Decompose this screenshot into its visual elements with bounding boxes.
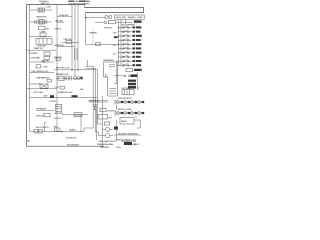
- thermal cutout box: [60, 86, 64, 89]
- wire ladder feed bus: [117, 20, 119, 66]
- svg-text:DEF HTR: DEF HTR: [41, 61, 50, 63]
- wire left drop D: [80, 115, 82, 132]
- wire aux row: [57, 46, 75, 48]
- svg-text:AUGER: AUGER: [75, 114, 82, 117]
- svg-text:MOLD HTR: MOLD HTR: [116, 17, 126, 19]
- wire defrost branch: [30, 72, 54, 74]
- wire vertical bus A: [71, 5, 73, 71]
- svg-text:CORD: CORD: [84, 4, 90, 6]
- dispenser strip 1 connector row: [115, 98, 144, 104]
- heater box lower right: [120, 118, 134, 124]
- label lamp pair 2: [128, 83, 136, 85]
- wire icemaker feed: [86, 17, 105, 19]
- note block emphasis dash 1: [69, 1, 74, 2]
- wire ground row: [57, 21, 64, 23]
- svg-text:SEE PG 2: SEE PG 2: [41, 3, 50, 5]
- svg-text:WIRING DIAGRAM: WIRING DIAGRAM: [97, 143, 113, 146]
- svg-text:MULLION HTR: MULLION HTR: [36, 127, 49, 129]
- label ladder left 2: [114, 36, 118, 38]
- wire junction row: [54, 69, 88, 71]
- evaporator fan box: [47, 79, 52, 82]
- label water tube dark: [114, 126, 118, 129]
- auger motor box: [74, 113, 82, 117]
- heater sensor box: [55, 128, 61, 131]
- label holding sw dark: [134, 20, 142, 22]
- thermostat box: [40, 84, 48, 88]
- dispenser strip 2 connector row: [115, 108, 144, 115]
- gear box: [108, 21, 115, 24]
- terminal header double line: [89, 100, 108, 103]
- connector P4 pins: [34, 129, 42, 133]
- label switch dark: [72, 95, 78, 97]
- wire motor feed: [95, 21, 104, 23]
- sensor box: [56, 58, 60, 60]
- svg-text:40W: 40W: [44, 96, 48, 98]
- defrost timer M1: [30, 20, 52, 24]
- junction dot A: [71, 69, 72, 70]
- lamp dark box: [128, 86, 140, 90]
- dispenser housing outline: [103, 60, 117, 96]
- wire L1 line bus vertical: [29, 5, 31, 132]
- wire right drop 2: [136, 72, 138, 90]
- wire top supply bus: [27, 4, 85, 6]
- svg-text:SEE CHART NOTE 3: SEE CHART NOTE 3: [99, 140, 117, 143]
- wire vertical bus B: [74, 5, 76, 78]
- svg-text:18 AWG: 18 AWG: [69, 129, 76, 132]
- svg-text:CRUSH SOL: CRUSH SOL: [66, 138, 78, 140]
- harness ladder left rail: [95, 106, 97, 140]
- svg-text:DEF THERMO L140: DEF THERMO L140: [32, 71, 50, 73]
- svg-text:TMR REL: TMR REL: [89, 33, 98, 35]
- svg-text:575W: 575W: [43, 66, 48, 68]
- door switch row 3: [118, 34, 141, 37]
- svg-text:165W: 165W: [138, 17, 143, 19]
- wire valve drop: [135, 116, 137, 118]
- border frame left edge: [26, 4, 28, 146]
- junction dot H2: [94, 109, 95, 110]
- wire twin drop A: [74, 48, 76, 60]
- wire to ladder: [116, 21, 132, 23]
- svg-text:HTR SW MTR LT: HTR SW MTR LT: [118, 98, 133, 100]
- harness box 1: [100, 108, 106, 112]
- svg-text:VALVE: VALVE: [121, 120, 127, 123]
- junction dot H1: [94, 106, 95, 107]
- wire fuse row: [57, 15, 72, 17]
- svg-text:RADIANT HTR: RADIANT HTR: [56, 73, 69, 76]
- wire compressor feed: [27, 49, 57, 51]
- svg-text:DISP BRD: DISP BRD: [122, 88, 131, 90]
- control board outline: [56, 104, 62, 111]
- heater element E1 chain: [56, 76, 83, 81]
- small box on ladder: [104, 122, 110, 125]
- wire right drop: [114, 60, 117, 84]
- door switch row 1: [118, 26, 141, 29]
- junction dot condenser: [43, 61, 44, 62]
- icemaker head circles P1: [105, 15, 112, 18]
- wire strip stub: [124, 19, 126, 24]
- svg-text:SW: SW: [113, 32, 116, 34]
- wire strip link: [116, 105, 118, 110]
- svg-text:FUSE LINK: FUSE LINK: [59, 15, 69, 17]
- wire drop W1: [84, 66, 93, 131]
- svg-text:DEF HTR LOOP: DEF HTR LOOP: [56, 68, 70, 70]
- compressor motor outline: [36, 38, 52, 44]
- wire board row: [62, 114, 88, 116]
- svg-text:T1 T2 T3 T4: T1 T2 T3 T4: [89, 101, 100, 103]
- tiny mark margin: [28, 140, 29, 141]
- wire return bus: [86, 12, 144, 14]
- junction dot neutral cross: [118, 44, 119, 45]
- svg-text:WTR VLV: WTR VLV: [36, 115, 45, 117]
- wire bus wrap at right margin: [143, 8, 145, 13]
- solenoid circle 2: [103, 134, 113, 138]
- svg-text:COLD CTRL: COLD CTRL: [30, 83, 41, 85]
- wire bottom bus: [30, 131, 84, 133]
- door switch row 7: [118, 51, 141, 54]
- door switch row 2: [118, 30, 140, 33]
- svg-text:TCO: TCO: [55, 87, 59, 89]
- door switch row 9: [118, 59, 141, 62]
- wire drop W2: [86, 68, 95, 132]
- note block emphasis dash 2: [79, 1, 85, 2]
- wire lower-right bus: [116, 120, 118, 140]
- wire ladder inner bus: [120, 19, 122, 66]
- wire light branch: [30, 97, 97, 99]
- defrost heater R row: [36, 65, 48, 69]
- svg-text:FRZ LIGHT: FRZ LIGHT: [34, 92, 44, 94]
- overload protector OL1: [40, 33, 46, 36]
- door switch row 5: [118, 43, 141, 46]
- svg-text:242193800: 242193800: [100, 147, 110, 149]
- svg-text:DR SW: DR SW: [50, 101, 56, 103]
- junction dot B: [77, 69, 78, 70]
- connector J1: [30, 7, 52, 12]
- door switch row 10: [118, 64, 141, 67]
- wire neutral drop: [85, 13, 87, 45]
- wire twin drop B: [76, 48, 78, 60]
- junction dot icemaker feed: [85, 17, 86, 18]
- wire link corner G: [95, 132, 102, 136]
- wire stub riser: [87, 60, 89, 66]
- wire thermostat to frame: [27, 88, 58, 90]
- svg-text:C1 15MFD: C1 15MFD: [29, 53, 38, 55]
- terminal text row 1: [114, 134, 141, 136]
- wire icemaker underline: [36, 109, 54, 111]
- door switch row 8: [118, 55, 140, 58]
- lamp cluster box: [126, 68, 142, 71]
- door switch row 4: [118, 38, 140, 41]
- limit switch boxes: [62, 40, 78, 43]
- motor circles P2: [104, 21, 107, 24]
- junction dot bottom bus: [61, 131, 62, 132]
- control box upper: [122, 90, 134, 95]
- svg-text:SOL 12V: SOL 12V: [54, 118, 62, 120]
- wire vertical bus N2: [56, 5, 58, 132]
- svg-text:TERM BRD VIEW: TERM BRD VIEW: [121, 141, 136, 143]
- dashed sensor line: [92, 30, 94, 45]
- svg-text:RUN CAP: RUN CAP: [38, 44, 47, 47]
- svg-text:START RLY: START RLY: [34, 47, 44, 50]
- water valve row: [36, 113, 50, 117]
- relay dark box bottom: [124, 142, 136, 146]
- capacitor C1 row: [29, 52, 51, 55]
- door switch row 6: [118, 47, 141, 50]
- lamp socket dark blob: [50, 95, 54, 98]
- junction dots ladder: [118, 27, 119, 62]
- svg-text:EVAP FAN MTR: EVAP FAN MTR: [36, 77, 50, 80]
- wire run winding: [30, 36, 52, 38]
- svg-text:DR MTR: DR MTR: [107, 110, 115, 112]
- svg-text:PN 216594300: PN 216594300: [67, 145, 80, 147]
- freezer light switch row: [114, 74, 137, 77]
- mold heater strip box: [115, 15, 144, 19]
- svg-text:BLK WHT ORN BRN GY: BLK WHT ORN BRN GY: [118, 134, 139, 136]
- relay K1: [39, 26, 51, 30]
- harness ladder vertical: [102, 96, 104, 147]
- svg-text:ADAPTIVE: ADAPTIVE: [55, 44, 65, 47]
- harness box 2: [98, 115, 108, 119]
- svg-text:DRAIN HTR 16W: DRAIN HTR 16W: [58, 91, 72, 94]
- svg-text:WTR FILL: WTR FILL: [104, 27, 113, 29]
- wire vertical bus C: [77, 5, 79, 71]
- wire stub up: [45, 122, 47, 131]
- border frame bottom edge: [27, 145, 105, 147]
- svg-text:REV C: REV C: [134, 144, 140, 146]
- svg-text:AUG ICE CRSH: AUG ICE CRSH: [118, 108, 132, 111]
- solenoid circle 1: [103, 127, 113, 131]
- wire valve out: [134, 120, 140, 128]
- svg-text:COND FAN: COND FAN: [30, 57, 40, 60]
- wire drop W3: [88, 70, 103, 124]
- svg-text:SHIELD: SHIELD: [55, 29, 62, 31]
- wire upper bus to right: [85, 7, 144, 9]
- coil box on cross wire: [96, 42, 101, 45]
- svg-text:TIMER MTR: TIMER MTR: [36, 17, 47, 19]
- wire neutral cross: [86, 44, 119, 46]
- condenser fan motor row: [30, 56, 50, 59]
- svg-text:THERMO: THERMO: [128, 17, 137, 19]
- svg-text:SHUTOFF ARM: SHUTOFF ARM: [122, 24, 136, 27]
- label lamp pair: [128, 80, 136, 82]
- wire condenser branch: [30, 61, 54, 63]
- wire riser to upper bus: [84, 5, 86, 8]
